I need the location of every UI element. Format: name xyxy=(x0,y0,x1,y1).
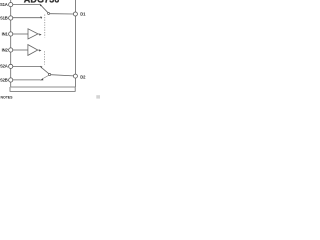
driver U1 output arrow xyxy=(38,33,40,35)
pin S2A xyxy=(9,64,13,68)
switch SW1 lever S1A to pole xyxy=(41,5,48,13)
pin S2B xyxy=(9,78,13,82)
svg-text:S1A: S1A xyxy=(0,2,8,7)
wire S1B xyxy=(13,17,41,19)
wire IN2 xyxy=(13,49,28,51)
SW2 pole xyxy=(49,73,51,75)
background xyxy=(0,0,100,100)
svg-text:IN1: IN1 xyxy=(2,31,9,36)
wire S2A xyxy=(13,65,41,67)
svg-text:IN2: IN2 xyxy=(2,47,9,52)
driver U1 triangle xyxy=(28,29,38,39)
SW1 pole xyxy=(48,13,50,15)
switch SW2 arrowhead at S2B contact xyxy=(40,78,43,80)
svg-text:NOTES: NOTES xyxy=(1,96,14,100)
S2A contact tick xyxy=(40,66,42,68)
switch SW1 arrowhead at S1A contact xyxy=(40,4,42,7)
pin S1A xyxy=(9,3,13,7)
box bottom edge xyxy=(11,86,76,88)
box right edge xyxy=(74,0,76,87)
pin S1B xyxy=(9,16,13,20)
driver U2 triangle xyxy=(28,45,38,56)
pin IN2 xyxy=(9,48,13,52)
SW2 lever stub pole to S2B xyxy=(43,75,49,78)
svg-text:D1: D1 xyxy=(80,12,86,17)
faint cut text bottom right xyxy=(96,95,100,98)
lower flat rectangle xyxy=(10,87,75,91)
svg-text:S2A: S2A xyxy=(0,64,8,69)
wire SW2 pole to D2 xyxy=(51,75,74,76)
wire S2B xyxy=(13,79,41,81)
wire SW1 pole to D1 xyxy=(50,13,74,15)
svg-text:ADG736: ADG736 xyxy=(24,0,60,5)
svg-text:D2: D2 xyxy=(80,74,86,79)
wire IN1 xyxy=(13,33,28,35)
wire S1A xyxy=(13,4,40,6)
pin D1 xyxy=(73,12,77,16)
pin D2 xyxy=(73,74,77,78)
box left edge xyxy=(10,0,12,87)
driver U2 output arrow xyxy=(38,49,40,51)
pin IN1 xyxy=(9,32,13,36)
S1B contact tick xyxy=(40,16,42,19)
dashed control line switch 1 xyxy=(44,15,46,38)
dashed control line switch 2 xyxy=(43,51,45,64)
switch SW2 lever S2A to pole xyxy=(41,67,49,73)
svg-text:S1B: S1B xyxy=(0,15,8,20)
svg-text:S2B: S2B xyxy=(0,77,8,82)
